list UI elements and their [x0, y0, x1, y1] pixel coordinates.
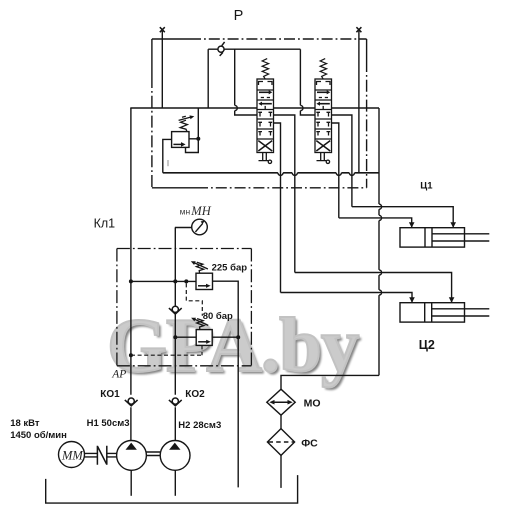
relief valve 80 bar body [196, 330, 212, 346]
wire filter to tank [280, 455, 282, 488]
spring of valve V2 [320, 59, 326, 79]
svg-text:Ц1: Ц1 [420, 180, 433, 191]
svg-text:Кл1: Кл1 [94, 216, 116, 230]
filter FS [267, 429, 294, 456]
svg-text:ММ: ММ [61, 448, 83, 462]
enclosure of valve block (dash-dot) [152, 39, 367, 188]
wire branch to valve V2 (hop over P) [300, 49, 315, 115]
enclosure Kl1 (dash-dot) [117, 249, 252, 366]
wire return to cooler [281, 375, 379, 389]
check valve under gauge [169, 306, 182, 314]
wire gauge/relief manifold line [131, 280, 196, 282]
wire tank bus hops [278, 173, 355, 176]
pilot line (dashed) from manifold to 80 bar valve [186, 283, 202, 315]
arrow into C2 rod port [449, 297, 455, 302]
junction dot RD right [196, 137, 200, 141]
check valve KO2 [169, 398, 182, 406]
svg-text:МО: МО [304, 398, 321, 410]
relief valve RD body (top-left) [172, 132, 189, 148]
suction pipe pump H2 [174, 470, 176, 496]
wire P line main horizontal [130, 107, 379, 109]
junction dots on manifold line [129, 279, 133, 283]
wire cooler to filter [280, 415, 282, 428]
svg-text:КО1: КО1 [100, 389, 120, 400]
directional valve V1 body [257, 79, 274, 153]
relief valve RD spring and adjust arrow [180, 120, 187, 131]
wire V2 port B to cylinder C1 piston side [332, 123, 339, 218]
wire cylinder C1 piston-side feed [339, 218, 412, 228]
stray mark [167, 160, 169, 166]
pressure gauge MN [175, 227, 192, 229]
relief valve 225 bar body [196, 273, 213, 289]
svg-text:КО2: КО2 [185, 389, 205, 400]
shaft motor to coupling [85, 453, 98, 457]
wire riser from P line to check line [207, 49, 209, 108]
svg-text:МН: МН [190, 204, 211, 218]
shaft coupling to pump H1 [107, 453, 117, 457]
shaft pump H1 to pump H2 [146, 452, 160, 456]
junction dots 80 bar line [173, 335, 177, 339]
pump H2 [160, 441, 190, 471]
plugged port X1 [160, 27, 165, 32]
wire cylinder C1 rod-side feed [352, 207, 453, 228]
relief valve 80 spring [197, 319, 204, 330]
wire from X1 down to P line [161, 31, 163, 108]
svg-text:Н1 50см3: Н1 50см3 [87, 418, 130, 429]
wire return riser (P through to cooler) with hops [378, 108, 380, 375]
wire cylinder C2 piston-side feed [281, 293, 413, 303]
check valve KO top [218, 46, 224, 52]
arrow into C1 rod port [450, 222, 456, 227]
wire from X2 down to tank bus [358, 31, 360, 173]
wire 225 bar outlet to tank [213, 281, 239, 487]
watermark GPA.by [107, 301, 507, 390]
svg-text:Н2 28см3: Н2 28см3 [178, 420, 221, 431]
svg-text:АР: АР [111, 369, 126, 381]
wire tank bus (T line) [163, 172, 379, 174]
wire V1 port B to cylinder C2 piston side [274, 123, 281, 293]
wire 80 bar line [175, 336, 238, 338]
check valve KO1 [125, 398, 138, 406]
arrow into C2 piston port [409, 297, 415, 302]
coupling [97, 446, 106, 465]
pilot line (dashed) unloader to H1 [131, 345, 202, 355]
suction pipe pump H1 [130, 470, 132, 496]
arrow into C1 piston port [409, 222, 415, 227]
wire pump H2 riser (gauge line) [174, 228, 176, 441]
wire V1 port A to cylinder C2 rod side [274, 115, 295, 273]
wire pump H1 pressure riser [130, 108, 132, 441]
junction dot on return [236, 335, 240, 339]
wire RD left port to drain [163, 139, 172, 172]
wire cylinder C2 rod-side feed [295, 273, 452, 303]
pump H1 [117, 441, 147, 471]
directional valve V2 body [315, 79, 332, 153]
svg-text:225 бар: 225 бар [212, 263, 248, 274]
electric motor M [59, 442, 85, 468]
svg-text:18 кВт: 18 кВт [10, 418, 40, 429]
cylinder C1 [400, 228, 465, 247]
spring of valve V1 [262, 59, 268, 79]
tank [46, 475, 298, 503]
cooler MO [267, 389, 295, 415]
relief valve 225 spring [196, 262, 203, 273]
wire check-valve top line [208, 48, 300, 50]
plugged port X2 [356, 27, 361, 32]
junction dot pilot on H1 [129, 353, 133, 357]
svg-text:80 бар: 80 бар [203, 311, 233, 322]
wire V2 port A to cylinder C1 rod side [332, 115, 352, 207]
relief valve RD internal arrow [173, 143, 181, 145]
svg-text:P: P [234, 8, 244, 24]
svg-text:мн: мн [180, 206, 191, 216]
svg-text:1450 об/мин: 1450 об/мин [10, 430, 67, 441]
wire branch to valve V1 (hop over P) [235, 49, 257, 115]
svg-text:Ц2: Ц2 [419, 338, 435, 352]
lever of valve V2 [317, 153, 327, 161]
cylinder C2 [400, 303, 465, 322]
svg-text:ФС: ФС [301, 437, 318, 449]
lever of valve V1 [259, 153, 269, 161]
wire RD right port loop [186, 108, 199, 153]
